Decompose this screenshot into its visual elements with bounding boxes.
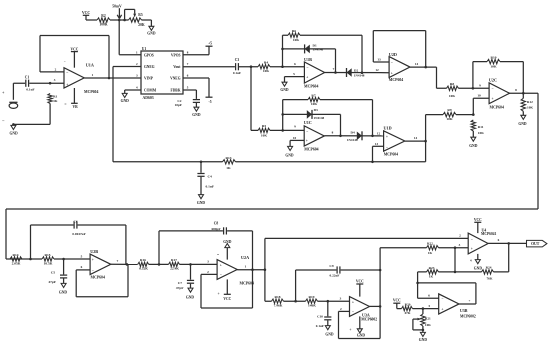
svg-text:R23: R23 — [429, 266, 435, 270]
svg-text:R1: R1 — [53, 94, 57, 98]
svg-text:C9: C9 — [329, 264, 334, 268]
svg-text:R10: R10 — [490, 55, 496, 59]
svg-text:GND: GND — [223, 240, 232, 244]
svg-text:10K: 10K — [263, 69, 270, 73]
svg-text:0.1uF: 0.1uF — [316, 324, 324, 328]
svg-text:−: − — [220, 273, 222, 277]
svg-text:1K: 1K — [428, 251, 433, 255]
svg-text:1N4148: 1N4148 — [354, 73, 365, 77]
svg-text:+: + — [352, 300, 354, 304]
svg-text:−: − — [352, 310, 354, 314]
svg-text:1K: 1K — [226, 166, 231, 170]
svg-text:R20: R20 — [405, 303, 411, 307]
svg-text:MCP604: MCP604 — [384, 152, 398, 156]
svg-text:C3: C3 — [235, 58, 240, 62]
svg-text:MCP604: MCP604 — [91, 275, 105, 279]
svg-text:0.22uF: 0.22uF — [330, 273, 340, 277]
svg-text:0.1uF: 0.1uF — [26, 88, 34, 92]
svg-text:U3B: U3B — [460, 308, 468, 313]
svg-text:R13: R13 — [225, 156, 231, 160]
svg-text:−: − — [2, 119, 5, 124]
svg-text:=: = — [64, 103, 66, 107]
svg-text:+: + — [218, 292, 220, 296]
svg-text:0.1uF: 0.1uF — [206, 185, 214, 189]
svg-text:10K: 10K — [449, 94, 456, 98]
svg-text:−: − — [492, 87, 494, 91]
svg-text:13: 13 — [377, 58, 381, 62]
svg-text:−: − — [64, 60, 66, 64]
svg-text:MCP6002: MCP6002 — [361, 318, 377, 322]
svg-text:MCP604: MCP604 — [240, 282, 254, 286]
svg-text:MCP604: MCP604 — [304, 84, 318, 88]
svg-text:D3: D3 — [314, 108, 318, 112]
svg-text:GND: GND — [280, 88, 289, 92]
svg-text:GND: GND — [325, 332, 334, 336]
svg-text:1N4148: 1N4148 — [313, 47, 324, 51]
svg-text:R16: R16 — [140, 258, 146, 262]
svg-text:14: 14 — [415, 62, 419, 66]
svg-text:VCC: VCC — [474, 218, 482, 222]
svg-text:2.05K: 2.05K — [12, 261, 21, 265]
svg-text:1N4148: 1N4148 — [314, 116, 325, 120]
svg-text:10K: 10K — [478, 131, 484, 135]
svg-text:76K: 76K — [486, 276, 492, 280]
svg-text:GND: GND — [419, 338, 428, 342]
svg-text:22.4K: 22.4K — [170, 267, 179, 271]
svg-text:C5: C5 — [51, 271, 56, 275]
svg-text:+: + — [349, 328, 351, 332]
svg-text:GND: GND — [197, 201, 206, 205]
svg-text:1N4148: 1N4148 — [347, 138, 358, 142]
svg-text:MCP6002: MCP6002 — [460, 314, 476, 318]
svg-text:13: 13 — [375, 142, 379, 146]
svg-text:MCP604: MCP604 — [490, 105, 504, 109]
svg-text:10K: 10K — [425, 323, 431, 327]
svg-text:10K: 10K — [261, 133, 268, 137]
svg-text:R4: R4 — [264, 60, 269, 64]
svg-text:R22: R22 — [427, 242, 433, 246]
svg-text:+: + — [306, 76, 308, 80]
svg-text:−: − — [306, 66, 308, 70]
svg-text:VCC: VCC — [223, 297, 231, 301]
svg-text:1K: 1K — [53, 99, 58, 103]
svg-text:10K: 10K — [293, 38, 300, 42]
svg-text:AD603: AD603 — [143, 96, 154, 100]
svg-text:VCC: VCC — [82, 11, 90, 15]
svg-text:U1D: U1D — [384, 125, 392, 130]
svg-text:10K: 10K — [311, 102, 318, 106]
svg-text:C2: C2 — [177, 99, 181, 103]
svg-text:R5: R5 — [138, 13, 143, 17]
svg-text:R5: R5 — [262, 124, 267, 128]
svg-text:R9: R9 — [447, 108, 452, 112]
svg-text:0.1uF: 0.1uF — [233, 71, 241, 75]
svg-text:+: + — [220, 263, 222, 267]
svg-text:VNEG: VNEG — [170, 77, 181, 81]
svg-text:GND: GND — [192, 113, 201, 117]
svg-text:GND: GND — [285, 154, 294, 158]
svg-text:47K: 47K — [404, 311, 410, 315]
svg-text:MCP604: MCP604 — [84, 90, 98, 94]
svg-text:C1: C1 — [25, 75, 30, 79]
svg-text:GND: GND — [121, 99, 130, 103]
svg-text:R12: R12 — [527, 100, 533, 104]
svg-text:COMM: COMM — [144, 89, 157, 93]
svg-text:14: 14 — [414, 136, 418, 140]
svg-text:10: 10 — [477, 93, 481, 97]
svg-text:U2C: U2C — [489, 77, 497, 82]
svg-text:R2: R2 — [101, 14, 106, 18]
svg-text:8.52K: 8.52K — [139, 267, 148, 271]
svg-text:C7: C7 — [178, 281, 183, 285]
svg-text:GND: GND — [474, 267, 483, 271]
svg-text:47pF: 47pF — [176, 286, 184, 290]
svg-text:140K: 140K — [308, 304, 316, 308]
svg-text:GNEG: GNEG — [144, 65, 155, 69]
svg-text:10.5K: 10.5K — [44, 261, 53, 265]
svg-text:7.96K: 7.96K — [274, 304, 283, 308]
svg-text:+: + — [386, 135, 388, 139]
svg-text:R19: R19 — [308, 295, 314, 299]
svg-text:MCP604: MCP604 — [304, 147, 318, 151]
svg-text:−: − — [92, 268, 94, 272]
svg-text:OUT: OUT — [531, 242, 540, 246]
svg-text:R17: R17 — [171, 258, 177, 262]
svg-text:R6: R6 — [292, 29, 297, 33]
svg-text:+5: +5 — [208, 41, 212, 45]
svg-text:FDBK: FDBK — [171, 89, 181, 93]
svg-text:C10: C10 — [317, 315, 323, 319]
svg-text:−: − — [471, 237, 473, 241]
svg-text:+: + — [92, 258, 94, 262]
svg-text:−: − — [441, 297, 443, 301]
svg-text:R8: R8 — [450, 82, 455, 86]
svg-text:12: 12 — [377, 132, 381, 136]
svg-text:=: = — [217, 253, 219, 257]
svg-text:MCP604: MCP604 — [389, 78, 403, 82]
svg-text:C6: C6 — [73, 219, 78, 223]
svg-text:1K: 1K — [429, 274, 434, 278]
svg-text:50mV: 50mV — [112, 4, 122, 8]
svg-text:+: + — [469, 299, 471, 303]
svg-text:+: + — [391, 71, 393, 75]
svg-text:GND: GND — [357, 333, 366, 337]
svg-text:GND: GND — [147, 32, 156, 36]
svg-text:R24: R24 — [486, 266, 492, 270]
svg-text:100K: 100K — [99, 23, 107, 27]
svg-text:VINP: VINP — [144, 77, 154, 81]
svg-text:47pF: 47pF — [48, 280, 56, 284]
svg-text:U1A: U1A — [86, 63, 94, 68]
svg-text:R11: R11 — [478, 125, 484, 129]
svg-text:MCP6041: MCP6041 — [481, 232, 497, 236]
svg-text:Vout: Vout — [173, 65, 181, 69]
svg-text:GND: GND — [59, 290, 68, 294]
svg-text:−: − — [391, 61, 393, 65]
svg-text:R21: R21 — [425, 317, 431, 321]
svg-text:VR: VR — [72, 105, 78, 109]
svg-text:VCC: VCC — [356, 280, 364, 284]
svg-text:10pF: 10pF — [175, 103, 182, 107]
svg-text:GND: GND — [186, 296, 195, 300]
svg-text:VCC: VCC — [71, 47, 79, 51]
svg-text:U1B: U1B — [304, 57, 312, 62]
svg-text:C4: C4 — [208, 175, 213, 179]
svg-text:−: − — [306, 130, 308, 134]
svg-text:D2: D2 — [354, 68, 358, 72]
svg-text:10K: 10K — [446, 117, 453, 121]
svg-text:VPOS: VPOS — [171, 53, 181, 57]
svg-text:U2A: U2A — [241, 255, 249, 260]
svg-text:10K: 10K — [490, 65, 497, 69]
svg-text:U2D: U2D — [389, 52, 397, 57]
svg-text:GND: GND — [469, 144, 478, 148]
svg-text:C8: C8 — [214, 222, 219, 226]
svg-text:12: 12 — [375, 68, 379, 72]
svg-text:GND: GND — [518, 122, 527, 126]
svg-text:+: + — [441, 307, 443, 311]
svg-text:+: + — [306, 139, 308, 143]
svg-text:U1C: U1C — [304, 120, 312, 125]
svg-text:U1: U1 — [142, 47, 147, 51]
svg-text:10: 10 — [293, 136, 297, 140]
svg-text:0.0047uF: 0.0047uF — [72, 232, 85, 236]
svg-text:R14: R14 — [12, 253, 18, 257]
svg-text:R15: R15 — [44, 253, 50, 257]
svg-text:U2B: U2B — [90, 249, 98, 254]
svg-text:D4: D4 — [351, 131, 355, 135]
svg-text:GPOS: GPOS — [144, 53, 154, 57]
svg-text:-5: -5 — [209, 100, 212, 104]
svg-text:+: + — [492, 97, 494, 101]
svg-text:20K: 20K — [138, 23, 145, 27]
svg-text:+: + — [471, 247, 473, 251]
svg-text:VCC: VCC — [393, 298, 401, 302]
svg-text:+: + — [2, 90, 5, 95]
svg-text:GND: GND — [9, 132, 18, 136]
svg-text:680pF: 680pF — [211, 227, 220, 231]
svg-text:R7: R7 — [311, 93, 316, 97]
svg-text:−: − — [386, 146, 388, 150]
svg-text:R18: R18 — [274, 295, 280, 299]
svg-text:10K: 10K — [527, 106, 533, 110]
